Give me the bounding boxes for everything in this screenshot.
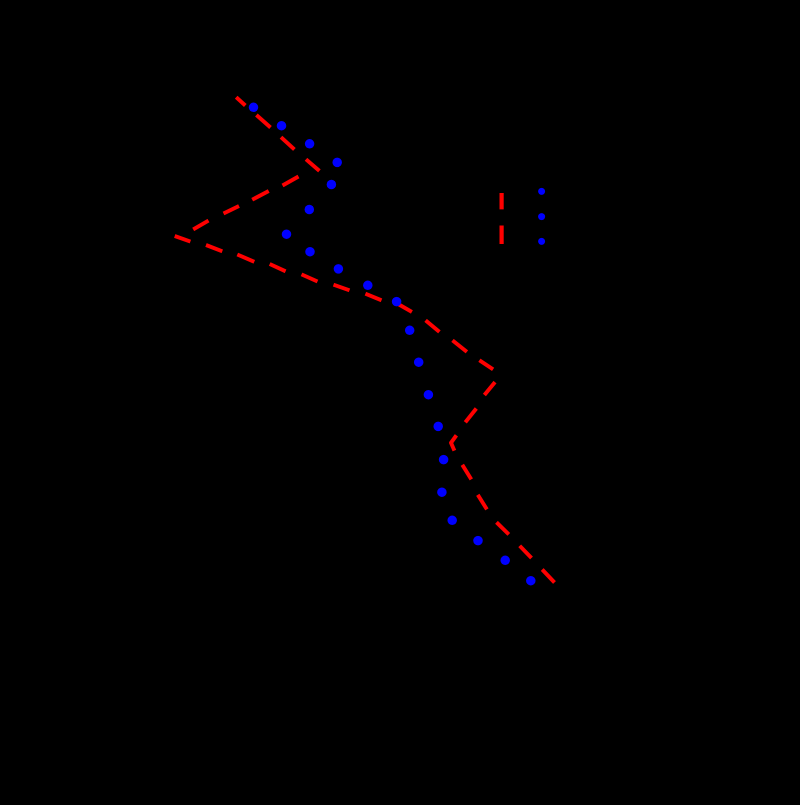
- legend: blue point samples: [538, 188, 545, 245]
- blue scatter points (series 2): [249, 103, 536, 586]
- legend: red dashed vertical line sample: [500, 193, 504, 244]
- red dashed trajectory line (series 1), drawn as explicit dashes: [175, 97, 555, 582]
